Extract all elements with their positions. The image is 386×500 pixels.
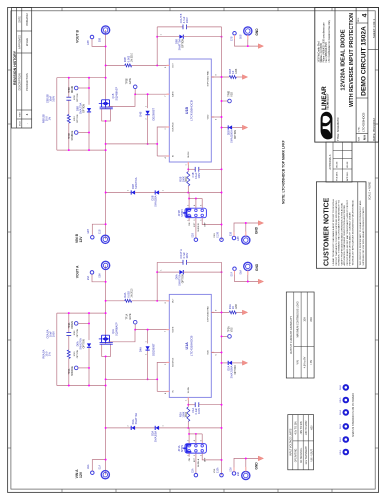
- svg-text:SOURCE: SOURCE: [173, 122, 175, 132]
- svg-text:100V: 100V: [185, 252, 189, 258]
- junction: [247, 45, 249, 47]
- jumper JP1B SHDN: [183, 208, 206, 218]
- wire main rail VIN B to VOUT B: [105, 121, 107, 239]
- transistor Q1B: [99, 100, 113, 109]
- test point TP2A VSS: [222, 335, 228, 337]
- diode D9B SMAT70A: [157, 36, 179, 38]
- terminal E10B VSS: [220, 238, 224, 242]
- size / ic no / demo circuit row: [356, 13, 369, 141]
- diode D1A SMAT70A: [106, 427, 132, 429]
- wire E5A to rail: [92, 274, 106, 282]
- svg-text:E10B: E10B: [217, 232, 219, 238]
- svg-text:2: 2: [127, 425, 129, 426]
- wire input GND group: [234, 223, 260, 236]
- svg-text:4: 4: [165, 393, 167, 394]
- power flag GND (R1 branch): [242, 310, 247, 315]
- junction: [156, 143, 158, 145]
- svg-text:TECHNOLOGY APPLICATIONS ENGINE: TECHNOLOGY APPLICATIONS ENGINEERING FOR …: [351, 199, 354, 265]
- mounting hole MH5: [344, 398, 349, 403]
- svg-text:OPTION: OPTION: [84, 339, 86, 348]
- svg-text:1206: 1206: [236, 68, 238, 74]
- svg-text:E10A: E10A: [216, 467, 219, 473]
- zener diode D4A DDZ9698: [147, 351, 149, 380]
- junction: [105, 45, 107, 47]
- svg-text:4.5V to 8V: 4.5V to 8V: [303, 356, 306, 368]
- junction: [88, 312, 90, 314]
- test point TP4A DRAIN: [74, 322, 78, 326]
- capacitor COUT B: [157, 26, 183, 28]
- svg-text:1: 1: [186, 400, 188, 401]
- junction: [221, 127, 223, 129]
- svg-text:0.002: 0.002: [126, 55, 130, 62]
- power flag GND (D5 branch): [242, 125, 247, 130]
- test point TP8B DRAIN: [74, 86, 78, 90]
- svg-text:SHDN: SHDN: [188, 151, 190, 158]
- wire output node: [156, 262, 158, 301]
- junction: [187, 192, 189, 194]
- svg-text:SMAJ58A: SMAJ58A: [154, 195, 158, 207]
- svg-text:1K: 1K: [231, 70, 235, 73]
- svg-text:INPUT VOLTAGE LIMITS: INPUT VOLTAGE LIMITS: [290, 428, 293, 456]
- svg-text:05/31/2012: 05/31/2012: [26, 13, 29, 26]
- junction: [188, 433, 190, 435]
- svg-text:E9A: E9A: [87, 464, 90, 469]
- svg-text:SHDN: SHDN: [180, 209, 184, 216]
- svg-text:SHEET 1 OF 1: SHEET 1 OF 1: [372, 19, 376, 39]
- svg-text:-60V: -60V: [311, 425, 313, 430]
- mounting hole MH6: [344, 385, 349, 390]
- wire VDD pin to VSS rail: [211, 116, 221, 118]
- svg-text:SOURCE: SOURCE: [72, 130, 74, 140]
- svg-text:2: 2: [187, 440, 189, 441]
- junction: [221, 459, 223, 461]
- turret E4B GND: [242, 236, 250, 244]
- resistor R1B 1K: [211, 76, 229, 78]
- svg-text:THIS CIRCUIT IS PROPRIETARY TO: THIS CIRCUIT IS PROPRIETARY TO LINEAR TE…: [359, 200, 362, 265]
- svg-text:EXPOSED PAD: EXPOSED PAD: [206, 70, 209, 86]
- turret E6A GND: [244, 262, 252, 270]
- svg-text:12V: 12V: [79, 236, 83, 243]
- junction: [188, 198, 190, 200]
- svg-text:DDZ9698T: DDZ9698T: [152, 343, 156, 356]
- date sheet row: [368, 19, 379, 141]
- svg-text:100V: 100V: [51, 95, 55, 101]
- resistor R2B 0.002: [106, 64, 125, 66]
- svg-text:CIRCUIT THAT MEETS CUSTOMER-SU: CIRCUIT THAT MEETS CUSTOMER-SUPPLIED SPE…: [335, 200, 338, 266]
- svg-text:DATE: 05/31/2012: DATE: 05/31/2012: [372, 118, 376, 141]
- svg-text:> 8V: > 8V: [310, 359, 313, 364]
- diode D9A SMAT70A: [157, 271, 179, 273]
- resistor R5B 100K: [187, 186, 189, 193]
- svg-text:E7A: E7A: [231, 272, 234, 277]
- junction: [105, 385, 107, 387]
- svg-text:0603: 0603: [186, 411, 188, 417]
- wire gate of Q1 to GATE pin: [108, 94, 169, 106]
- svg-text:APPROVED: APPROVED: [18, 35, 21, 49]
- pin stubs U1 (salmon): [167, 301, 215, 400]
- svg-text:4: 4: [362, 13, 369, 17]
- svg-text:SCALE = NONE: SCALE = NONE: [369, 181, 372, 200]
- junction: [156, 271, 158, 273]
- junction: [134, 329, 136, 331]
- svg-text:LTC4359HDCB: LTC4359HDCB: [361, 112, 365, 131]
- svg-text:100V: 100V: [51, 331, 55, 337]
- svg-text:1210: 1210: [74, 351, 76, 357]
- svg-text:ON: ON: [189, 222, 191, 226]
- svg-text:2: 2: [127, 190, 129, 191]
- svg-text:GATE: GATE: [172, 326, 175, 332]
- terminal E3B GND kelvin: [232, 236, 236, 240]
- svg-text:TECHNOLOGY: TECHNOLOGY: [327, 93, 329, 110]
- svg-text:MH1: MH1: [340, 449, 342, 454]
- junction: [245, 222, 247, 224]
- turret E4A GND: [242, 471, 250, 479]
- svg-text:1206: 1206: [74, 94, 76, 100]
- svg-text:REV: REV: [19, 112, 21, 117]
- turret E8B VOUT B: [102, 26, 110, 34]
- svg-text:OPTION: OPTION: [77, 93, 79, 102]
- svg-text:OPTION: OPTION: [77, 328, 79, 337]
- svg-text:SNAP-IN STANDOFFS ON PC BOARD: SNAP-IN STANDOFFS ON PC BOARD: [352, 393, 355, 437]
- capacitor COUT A: [157, 261, 183, 263]
- wire VSS rail: [221, 27, 223, 240]
- svg-text:REVISION HISTORY: REVISION HISTORY: [13, 50, 17, 85]
- diode D5B SMAJ100A OPTION: [222, 127, 229, 129]
- terminal E7B GND kelvin: [233, 32, 237, 36]
- junction: [88, 87, 90, 89]
- svg-text:DDZ9698T: DDZ9698T: [152, 108, 156, 121]
- capacitor C1A: [188, 404, 195, 406]
- svg-text:-40V TO 90V: -40V TO 90V: [301, 421, 303, 435]
- svg-text:W.LEE: W.LEE: [336, 161, 338, 168]
- svg-text:E3B: E3B: [230, 231, 232, 236]
- junction: [88, 77, 90, 79]
- junction: [221, 192, 223, 194]
- svg-text:SHDN: SHDN: [188, 387, 190, 394]
- svg-text:VOUT A: VOUT A: [75, 265, 79, 278]
- svg-text:SHDN: SHDN: [180, 445, 184, 452]
- svg-text:VOUT B: VOUT B: [75, 30, 79, 43]
- svg-text:PRODUCTION: PRODUCTION: [25, 73, 29, 91]
- svg-text:1% 2010: 1% 2010: [131, 288, 133, 298]
- wire jumper OFF to VSS rail: [202, 453, 221, 460]
- svg-text:LINEAR TECHNOLOGY HAS MADE A B: LINEAR TECHNOLOGY HAS MADE A BEST EFFORT…: [332, 199, 335, 266]
- svg-text:CUSTOMER NOTICE: CUSTOMER NOTICE: [324, 197, 331, 266]
- wire source feed to SOURCE and IN pins: [106, 143, 158, 145]
- svg-text:ECO: ECO: [19, 121, 21, 126]
- svg-text:GND: GND: [254, 226, 258, 234]
- svg-text:20A: 20A: [310, 317, 313, 322]
- svg-text:6: 6: [216, 119, 218, 120]
- svg-text:DC SURVIVAL: DC SURVIVAL: [300, 447, 303, 463]
- svg-text:1: 1: [163, 425, 165, 426]
- svg-text:APPROVALS: APPROVALS: [329, 154, 332, 169]
- junction: [88, 149, 90, 151]
- capacitor C1B: [188, 168, 195, 170]
- svg-text:6: 6: [200, 205, 202, 206]
- op-amp U1A LTC4359HDCB ideal diode controller: [169, 294, 211, 397]
- wire gate of Q1 to GATE pin: [108, 330, 169, 342]
- svg-text:VDD: VDD: [207, 350, 209, 355]
- svg-text:TP1A: TP1A: [126, 313, 129, 319]
- junction: [187, 427, 189, 429]
- svg-text:E8A: E8A: [99, 273, 102, 278]
- terminal E7A GND kelvin: [233, 267, 237, 271]
- wire E5B to rail: [92, 39, 106, 47]
- transistor Q1A: [99, 335, 113, 344]
- junction: [221, 311, 223, 313]
- svg-text:VSS: VSS: [214, 233, 216, 238]
- junction: [105, 427, 107, 429]
- svg-text:OPTION: OPTION: [77, 349, 79, 358]
- svg-text:OPTION: OPTION: [77, 114, 79, 123]
- wire jumper row ON to SHDN net: [188, 428, 190, 444]
- svg-text:GATE: GATE: [129, 78, 132, 85]
- svg-text:1% 2010: 1% 2010: [131, 52, 133, 62]
- svg-text:100K: 100K: [181, 411, 185, 417]
- svg-text:EXT: EXT: [194, 222, 196, 227]
- svg-text:GATE: GATE: [129, 313, 132, 320]
- svg-text:N/A: N/A: [363, 134, 367, 140]
- svg-text:10A: 10A: [303, 317, 306, 322]
- junction: [105, 281, 107, 283]
- svg-text:SMAJ100A: SMAJ100A: [230, 130, 234, 143]
- svg-text:OFF: OFF: [204, 222, 206, 227]
- wire E9A to rail: [92, 460, 105, 471]
- svg-text:GATE: GATE: [172, 91, 175, 97]
- wire jumper row EXT: [195, 199, 197, 209]
- address block: [317, 19, 330, 62]
- wire output node: [156, 27, 158, 66]
- logo Linear Technology: [321, 86, 333, 140]
- svg-text:EXPOSED PAD: EXPOSED PAD: [206, 306, 209, 322]
- power flag GND (R1 branch): [242, 75, 247, 80]
- wire output GND group: [235, 271, 260, 282]
- ground flag (input): [258, 221, 263, 226]
- svg-text:E4A: E4A: [237, 471, 240, 476]
- svg-text:SMAJ70A: SMAJ70A: [79, 338, 83, 350]
- svg-text:E3A: E3A: [229, 467, 232, 472]
- wire jumper common bus: [189, 198, 202, 200]
- svg-text:W.LEE: W.LEE: [347, 161, 349, 168]
- svg-text:LTC4359HDCB: LTC4359HDCB: [190, 336, 194, 357]
- svg-text:SMAT70A: SMAT70A: [134, 413, 138, 425]
- svg-text:100K: 100K: [181, 176, 185, 182]
- mounting hole MH4: [344, 410, 349, 415]
- wire source feed to SOURCE and IN pins: [106, 378, 158, 380]
- resistor R1A 1K: [211, 311, 229, 313]
- svg-text:E5A: E5A: [87, 275, 90, 280]
- junction: [221, 224, 223, 226]
- junction: [105, 300, 107, 302]
- svg-text:CIRCUIT BOARD LAYOUT MAY SIGNI: CIRCUIT BOARD LAYOUT MAY SIGNIFICANTLY A…: [346, 199, 349, 265]
- junction: [147, 143, 149, 145]
- junction: [156, 36, 158, 38]
- svg-text:12V: 12V: [79, 471, 83, 478]
- junction: [221, 76, 223, 78]
- svg-text:OPTION: OPTION: [235, 365, 237, 374]
- junction: [221, 351, 223, 353]
- zener diode D4B DDZ9698: [147, 115, 149, 144]
- junction: [147, 329, 149, 331]
- svg-text:SQJ488AEP: SQJ488AEP: [115, 322, 118, 336]
- diode D2B SMAJ58A: [135, 192, 155, 194]
- snubber network C6B,R6B,D6B: [57, 77, 107, 151]
- title block: [315, 8, 379, 143]
- svg-text:E1B: E1B: [100, 229, 102, 234]
- svg-text:E9B: E9B: [88, 229, 90, 234]
- revision history table: [12, 8, 32, 129]
- power flag GND (D5 branch): [242, 361, 247, 366]
- svg-text:1206: 1206: [74, 330, 76, 336]
- wire jumper ON stub: [188, 218, 190, 222]
- svg-text:ON: ON: [189, 457, 191, 461]
- op-amp U1B LTC4359HDCB ideal diode controller: [169, 59, 211, 162]
- diode D2A SMAJ58A: [135, 427, 155, 429]
- svg-text:E6B: E6B: [240, 34, 242, 39]
- customer notice block: [316, 182, 366, 269]
- wire jumper common bus: [189, 433, 202, 435]
- svg-text:TP6B: TP6B: [228, 90, 230, 96]
- svg-text:100V: 100V: [197, 172, 201, 178]
- snubber network C6A,R6A,D6A: [57, 312, 107, 386]
- wire VSS rail: [221, 262, 223, 475]
- junction: [147, 378, 149, 380]
- svg-text:SMAT70A: SMAT70A: [134, 177, 138, 189]
- terminal E10A VSS: [220, 473, 224, 477]
- wire jumper row ON to SHDN net: [188, 193, 190, 209]
- wire jumper row OFF: [201, 434, 203, 444]
- svg-text:100V: 100V: [197, 408, 201, 414]
- svg-text:VSS: VSS: [232, 327, 234, 332]
- svg-text:E2B: E2B: [192, 233, 194, 238]
- junction: [105, 223, 107, 225]
- svg-text:E1A: E1A: [99, 465, 102, 470]
- junction: [156, 300, 158, 302]
- wire jumper OFF to VSS rail: [202, 218, 221, 225]
- svg-text:MH6: MH6: [340, 384, 342, 389]
- junction: [105, 378, 107, 380]
- svg-text:2: 2: [165, 364, 167, 365]
- mounting hole MH2: [344, 437, 349, 442]
- svg-text:IC NO.: IC NO.: [358, 126, 360, 132]
- svg-text:VIN: VIN: [297, 360, 300, 364]
- svg-text:VIN - VOUT: VIN - VOUT: [311, 449, 313, 462]
- junction: [221, 168, 223, 170]
- svg-text:OPTION: OPTION: [235, 130, 237, 139]
- junction: [221, 100, 223, 102]
- svg-text:SUPPLIED FOR USE WITH LINEAR T: SUPPLIED FOR USE WITH LINEAR TECHNOLOGY …: [362, 206, 365, 265]
- junction: [105, 143, 107, 145]
- wire E9B to rail: [92, 224, 105, 235]
- svg-text:4: 4: [194, 440, 196, 441]
- svg-text:APP ENG.: APP ENG.: [346, 171, 349, 181]
- turret E6B GND: [244, 27, 252, 35]
- svg-text:HOWEVER, IT REMAINS THE CUSTOM: HOWEVER, IT REMAINS THE CUSTOMER'S RESPO…: [338, 200, 341, 266]
- svg-text:E7B: E7B: [232, 36, 234, 41]
- title row: [336, 13, 355, 141]
- svg-text:1K: 1K: [231, 306, 235, 309]
- svg-text:9: 9: [216, 74, 218, 75]
- svg-text:DESCRIPTION: DESCRIPTION: [18, 73, 21, 90]
- svg-text:MAXIMUM CONTINUOUS LOAD: MAXIMUM CONTINUOUS LOAD: [297, 301, 300, 337]
- svg-text:SMAJ100A: SMAJ100A: [230, 365, 234, 378]
- terminal E2A SHDN: [195, 453, 197, 473]
- svg-text:0.002: 0.002: [126, 291, 130, 298]
- wire jumper ON stub: [188, 453, 190, 457]
- svg-text:SMAT70A: SMAT70A: [178, 274, 182, 286]
- svg-text:1ms TRANSIENT: 1ms TRANSIENT: [305, 446, 308, 465]
- svg-text:TITLE: SCHEMATIC: TITLE: SCHEMATIC: [336, 117, 340, 141]
- terminal E5A kelvin: [90, 271, 94, 275]
- resistor R5A 100K: [187, 421, 189, 428]
- svg-text:OFF: OFF: [204, 457, 206, 462]
- junction: [68, 312, 70, 314]
- test point TP6B VSS: [222, 100, 228, 102]
- svg-text:VERIFY PROPER AND RELIABLE OPE: VERIFY PROPER AND RELIABLE OPERATION IN …: [340, 202, 343, 265]
- junction: [187, 168, 189, 170]
- junction: [221, 427, 223, 429]
- junction: [245, 457, 247, 459]
- svg-text:6: 6: [200, 440, 202, 441]
- junction: [105, 77, 107, 79]
- svg-text:GND: GND: [254, 462, 258, 470]
- jumper JP1A SHDN: [183, 444, 206, 454]
- approvals table: [326, 142, 352, 182]
- svg-text:1: 1: [186, 164, 188, 165]
- junction: [88, 385, 90, 387]
- svg-text:7: 7: [165, 96, 167, 97]
- svg-text:2: 2: [145, 118, 147, 119]
- diode D5A SMAJ100A OPTION: [222, 362, 229, 364]
- junction: [105, 459, 107, 461]
- mounting hole MH3: [344, 424, 349, 429]
- junction: [156, 378, 158, 380]
- wire output GND group: [235, 35, 260, 46]
- svg-text:U1B: U1B: [185, 107, 189, 115]
- junction: [105, 312, 107, 314]
- svg-text:OPTION: OPTION: [183, 39, 185, 48]
- svg-text:VSS: VSS: [214, 468, 216, 473]
- svg-text:DEMO CIRCUIT 1502A: DEMO CIRCUIT 1502A: [361, 26, 368, 96]
- svg-text:1206: 1206: [236, 303, 238, 309]
- svg-text:1: 1: [161, 34, 163, 35]
- junction: [247, 281, 249, 283]
- diode D1B SMAT70A: [106, 192, 132, 194]
- junction: [147, 93, 149, 95]
- svg-text:OPTION: OPTION: [84, 104, 86, 113]
- svg-text:MH3: MH3: [340, 423, 342, 428]
- turret E1A VIN A: [101, 471, 109, 479]
- svg-text:PERFORMANCE OR RELIABILITY. C: PERFORMANCE OR RELIABILITY. CONTACT LINE…: [349, 212, 352, 266]
- svg-text:SOURCE: SOURCE: [173, 357, 175, 367]
- svg-text:TP7B: TP7B: [69, 133, 71, 139]
- junction: [105, 355, 107, 357]
- svg-text:GND: GND: [255, 28, 259, 36]
- svg-text:TP3A: TP3A: [68, 368, 71, 374]
- svg-text:VDD: VDD: [207, 114, 209, 119]
- junction: [134, 93, 136, 95]
- junction: [221, 36, 223, 38]
- wire input GND group: [234, 458, 260, 471]
- svg-text:WITH REVERSE INPUT PROTECTION: WITH REVERSE INPUT PROTECTION: [349, 13, 355, 107]
- svg-text:REV.: REV.: [358, 17, 360, 22]
- svg-text:U1A: U1A: [185, 342, 189, 350]
- junction: [68, 385, 70, 387]
- svg-text:LTC Confidential-For Customer: LTC Confidential-For Customer Use Only: [328, 19, 331, 62]
- svg-text:E4B: E4B: [238, 236, 240, 241]
- svg-text:SOURCE: SOURCE: [72, 366, 74, 376]
